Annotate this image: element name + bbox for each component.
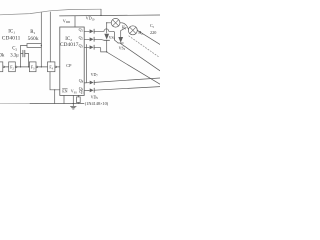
thyristor VS1 (104, 34, 109, 40)
wire bottom rail (30, 103, 84, 105)
node F3-F4 junction (41, 66, 42, 67)
wire EN to bottom rail (54, 90, 56, 104)
wire feedback vertical node A (20, 46, 22, 67)
svg-text:(1N4148×10): (1N4148×10) (85, 101, 109, 106)
gate F1 (cut off at left edge) (0, 62, 3, 72)
lamp H2 (128, 26, 137, 35)
wire string diagonal from VS1 (107, 52, 160, 84)
wire VD2 to VS1 gate (94, 38, 103, 41)
wire lamp H2 right diagonal (137, 30, 160, 44)
wire Q1 output row (84, 30, 89, 32)
svg-text:220: 220 (150, 30, 156, 35)
wire lamp supply rail (60, 14, 161, 17)
wire trigger line 1 to right edge (95, 78, 161, 82)
wire R2 top lead (77, 95, 79, 97)
wire lamp H1 right curving to lamp H2 (120, 23, 128, 29)
ground (72, 104, 74, 107)
svg-text:0k: 0k (0, 53, 5, 58)
svg-text:CP: CP (66, 63, 72, 68)
wire lamp H2 anode branch to VS2 (121, 28, 127, 37)
svg-text:560k: 560k (28, 36, 39, 42)
diode VD1 (90, 29, 94, 33)
wire F4 to CP pin (57, 66, 60, 68)
wire lamp H1 left to SCR anode (107, 23, 112, 33)
wire parallel right of box (86, 45, 88, 83)
wire Q2 output row (84, 38, 89, 40)
wire top rail corner drop (100, 9, 102, 15)
node lamp H1 anode junction (106, 22, 107, 23)
resistor R2 (77, 97, 81, 103)
thyristor VS2 (118, 37, 123, 43)
wire ground drop (72, 95, 74, 103)
wire top supply rail left (sloped scan) (0, 9, 101, 15)
wire F4 bottom to EN pin (50, 72, 60, 90)
gate F3 (29, 62, 36, 72)
wire C2 left lead (21, 53, 23, 55)
wire R1 left lead (21, 45, 27, 47)
node EN junction (54, 89, 55, 90)
svg-text:R1: R1 (30, 30, 35, 35)
wire C2 to gate input (28, 54, 30, 67)
wire vertical rail-to-R1 right end (40, 13, 42, 67)
wire string diagonal from VS2 (121, 44, 160, 71)
node C2 right junction (28, 66, 29, 67)
diode VD2 (90, 37, 94, 41)
diode VD9 (90, 88, 94, 92)
diode VD7 (90, 81, 94, 85)
wire VD3 elbow to VS1 cathode node (94, 47, 106, 52)
svg-text:C2: C2 (12, 47, 17, 52)
wire Vss to bottom rail (63, 95, 65, 103)
wire string dotted continuation (129, 36, 160, 58)
wire F1 to F2 (5, 66, 9, 68)
wire Q3 output row (84, 46, 89, 48)
wire F3 to F4 (38, 66, 48, 68)
wire bottom rail faint left (0, 103, 30, 105)
wire Q9 output row (84, 90, 89, 92)
capacitor C2 (23, 50, 25, 57)
wire C2 right lead (25, 53, 29, 55)
svg-text:VDD: VDD (63, 18, 71, 24)
wire R2 bottom lead (77, 102, 79, 105)
resistor R1 (27, 44, 41, 48)
gate F2 (9, 62, 16, 72)
wire F2 to F3 (17, 66, 29, 68)
lamp H1 (111, 18, 120, 27)
gate F4 (48, 62, 55, 72)
node F2-F3 junction A (20, 66, 21, 67)
node R1 right junction (41, 45, 42, 46)
wire vertical rail to F4 top (49, 12, 51, 62)
wire Q8 output row (84, 82, 89, 84)
node bottom rail ground junction (73, 103, 74, 104)
wire trigger line 2 to right edge (95, 87, 161, 91)
svg-text:3.3μ: 3.3μ (10, 53, 19, 58)
wire VS1 cathode (106, 40, 108, 52)
wire VS2 cathode (120, 42, 122, 45)
diode VD3 (90, 45, 94, 49)
wire Vdd to rail (74, 16, 76, 27)
svg-text:CD4011: CD4011 (2, 36, 21, 42)
IC U2 CD4017 box (60, 27, 84, 95)
wire after VD1 with hop over SCR anode (94, 29, 118, 43)
node VS1 cathode junction (106, 51, 107, 52)
svg-text:IC1: IC1 (8, 30, 15, 35)
node rail corner junction (100, 15, 101, 16)
svg-text:CD4017: CD4017 (60, 42, 79, 48)
svg-text:EN: EN (62, 89, 67, 94)
